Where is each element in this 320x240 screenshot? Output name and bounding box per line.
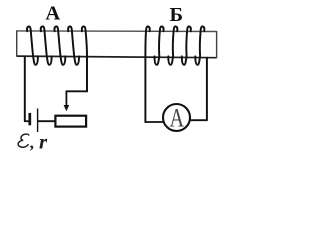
rheostat (slide-wire resistor)	[55, 116, 86, 127]
coil A left lead (down to battery)	[24, 56, 26, 121]
wire coil Б right to ammeter	[190, 119, 208, 121]
rheostat slider arrow	[64, 91, 70, 112]
wire battery negative stub	[24, 120, 30, 122]
ammeter A (circle)	[163, 104, 190, 131]
wire coil Б left to ammeter	[145, 121, 164, 123]
svg-text:Б: Б	[170, 4, 184, 26]
wire battery to rheostat	[38, 120, 56, 122]
wire coil A to slider (horizontal)	[66, 90, 87, 92]
coil A winding (5 turns on core)	[27, 26, 79, 64]
battery long plate (positive)	[37, 109, 39, 133]
coil A right lead (last turn down to slider wire)	[82, 26, 87, 91]
svg-text:A: A	[170, 104, 185, 133]
core bar (iron core)	[17, 30, 217, 58]
coil Б right lead (down to ammeter)	[206, 57, 208, 120]
coil Б left lead (first turn down to ammeter)	[145, 26, 149, 122]
battery short plate (negative)	[28, 113, 31, 125]
coil Б winding (5 turns on core)	[155, 26, 205, 64]
label ℰ (EMF script E)	[18, 134, 29, 147]
svg-text:,: ,	[30, 133, 34, 152]
svg-text:А: А	[45, 3, 60, 25]
svg-text:r: r	[39, 129, 48, 153]
